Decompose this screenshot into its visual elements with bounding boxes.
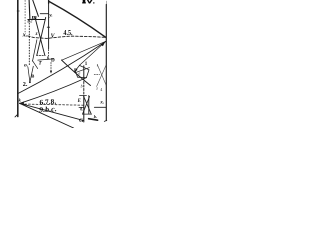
left vertical bottom hook (15, 114, 18, 117)
central vertical V1 top (83, 66, 85, 78)
fan line to S1 start (62, 41, 106, 60)
dotted arrow vertical (50, 63, 52, 71)
short horizontal (40, 13, 48, 15)
mid-top vertical dashed continuation (48, 50, 50, 59)
svg-text:a: a (78, 71, 80, 76)
bottom thick mark (89, 119, 98, 121)
right vertical bottom serif (104, 120, 107, 121)
arrowhead at apex (101, 41, 106, 46)
svg-text:4: 4 (100, 88, 102, 92)
hourglass line B (37, 17, 46, 55)
arrowhead of dotted vertical (50, 71, 52, 74)
nub tick on mid vertical (47, 26, 49, 28)
fan line to polygon (80, 41, 106, 65)
left V arm (28, 67, 30, 82)
left descending stroke A (33, 40, 37, 62)
upper-left baseline (28, 19, 45, 21)
svg-text:b.: b. (94, 114, 97, 119)
bottom line D2 (20, 103, 74, 128)
bottom X vertical V2 (88, 96, 90, 114)
bottom X line 1 (84, 96, 92, 114)
left vertical line (17, 0, 19, 117)
svg-text:z: z (35, 32, 38, 37)
svg-text:4.5.: 4.5. (63, 28, 72, 37)
svg-text:B: B (31, 74, 34, 79)
svg-text:b: b (81, 85, 83, 89)
top tick of X figure (80, 95, 87, 97)
label IV (82, 0, 94, 4)
svg-text:8.: 8. (80, 106, 83, 111)
right side faint X line 2 (97, 66, 106, 87)
mid-top vertical top nub (48, 0, 50, 3)
central vertical V1 dashed middle (83, 78, 85, 96)
pentagon (75, 65, 89, 77)
bottom right horizontal (94, 106, 106, 108)
bottom tick (79, 106, 84, 108)
dotted vertical left (24, 1, 26, 33)
svg-text:P: P (74, 68, 78, 74)
bottom dashed horizontal (21, 104, 84, 105)
right vertical line (105, 5, 107, 121)
bottom tick of X figure (83, 113, 92, 115)
left bend segment (33, 61, 38, 69)
upper-left figure line 1 (28, 0, 31, 20)
svg-text:y.: y. (48, 14, 52, 19)
big top diagonal (49, 1, 106, 37)
svg-text:b.c: b.c (28, 19, 33, 24)
knot chord U2 (76, 68, 90, 73)
arrow wedge at left vertex (20, 102, 24, 106)
central vertical V1 bottom (83, 96, 85, 122)
right side faint X line 1 (97, 64, 106, 85)
left vertex rising line (20, 78, 87, 104)
mid-top vertical (48, 1, 50, 49)
svg-text:2.: 2. (23, 81, 28, 88)
svg-text:G: G (79, 118, 84, 124)
dotted vertical (28, 21, 30, 67)
horizontal TD (38, 59, 54, 60)
left descending stroke C (30, 66, 33, 82)
hourglass line A (35, 18, 45, 56)
bottom line D1 (20, 103, 84, 120)
svg-text:x.: x. (99, 99, 104, 105)
apex dot of left V (29, 81, 31, 83)
svg-text:o.: o. (24, 62, 28, 68)
svg-text:D: D (51, 58, 55, 64)
bottom X line 2 (83, 96, 90, 114)
right vertical top faint (105, 1, 107, 5)
svg-text:E: E (77, 99, 81, 104)
main dashed horizontal (28, 36, 106, 39)
svg-text:x.: x. (22, 32, 28, 39)
tick on left vertical (17, 10, 19, 12)
knot main diagonal (62, 60, 91, 86)
hourglass dashed base (37, 54, 46, 56)
long rising line (18, 42, 106, 94)
upper-left figure line 2 (33, 0, 39, 16)
right side dashes (94, 74, 99, 76)
svg-text:b.: b. (47, 55, 50, 60)
svg-text:9.b.c.: 9.b.c. (39, 104, 57, 114)
